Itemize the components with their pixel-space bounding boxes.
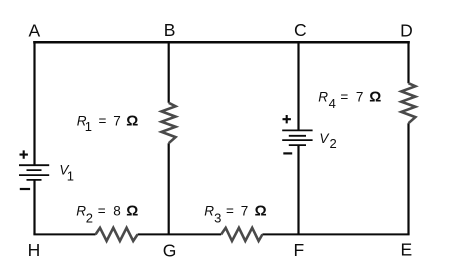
svg-text:7: 7 xyxy=(241,204,249,219)
svg-text:H: H xyxy=(28,240,41,260)
svg-text:Ω: Ω xyxy=(126,113,138,130)
svg-text:E: E xyxy=(400,240,412,260)
svg-text:A: A xyxy=(29,20,41,40)
svg-text:Ω: Ω xyxy=(369,89,381,106)
svg-text:=: = xyxy=(226,204,234,219)
svg-text:B: B xyxy=(164,20,176,40)
svg-text:=: = xyxy=(340,90,348,105)
svg-text:4: 4 xyxy=(329,96,336,111)
svg-text:Ω: Ω xyxy=(126,203,138,220)
svg-text:D: D xyxy=(400,20,413,40)
svg-text:1: 1 xyxy=(85,119,92,134)
svg-text:3: 3 xyxy=(214,211,221,226)
svg-text:F: F xyxy=(294,240,305,260)
svg-text:2: 2 xyxy=(330,136,337,151)
svg-text:1: 1 xyxy=(67,169,74,184)
svg-text:C: C xyxy=(294,20,307,40)
svg-text:2: 2 xyxy=(86,210,93,225)
svg-text:Ω: Ω xyxy=(255,203,267,220)
svg-text:R: R xyxy=(76,204,86,219)
svg-text:=: = xyxy=(98,204,106,219)
svg-text:R: R xyxy=(204,204,214,219)
svg-text:=: = xyxy=(99,114,107,129)
svg-text:R: R xyxy=(318,90,328,105)
svg-text:7: 7 xyxy=(356,90,364,105)
svg-text:G: G xyxy=(163,240,177,260)
svg-text:7: 7 xyxy=(113,114,121,129)
svg-text:8: 8 xyxy=(113,204,121,219)
